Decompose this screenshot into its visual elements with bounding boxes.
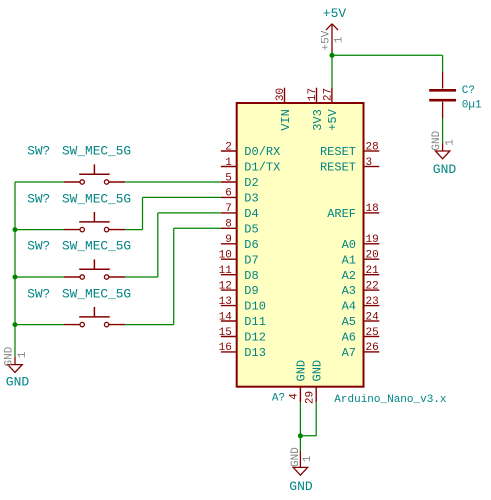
svg-text:A4: A4 [342, 300, 356, 314]
svg-text:GND: GND [289, 479, 313, 494]
pin 28 RESET [320, 141, 379, 159]
wire pin 4 to ground junction [299, 402, 301, 436]
svg-text:3V3: 3V3 [311, 109, 325, 131]
wire SW1 right to pin 5 [125, 181, 221, 183]
svg-text:GND: GND [290, 447, 302, 467]
ground (below Arduino) [293, 452, 307, 476]
svg-text:D5: D5 [244, 222, 258, 236]
svg-text:RESET: RESET [320, 145, 356, 159]
svg-text:6: 6 [225, 188, 232, 200]
svg-text:20: 20 [366, 250, 379, 262]
wire SW4 to pin 8 [174, 227, 221, 229]
pin 5 D2 [221, 172, 259, 190]
svg-text:9: 9 [225, 234, 232, 246]
svg-text:1: 1 [225, 157, 232, 169]
svg-text:GND: GND [295, 360, 309, 382]
IC A? Arduino_Nano_v3.x body [237, 103, 364, 387]
wire SW3 riser [157, 213, 159, 277]
svg-text:GND: GND [431, 130, 443, 150]
pin 4 GND (bottom) [289, 360, 309, 402]
svg-text:RESET: RESET [320, 161, 356, 175]
svg-text:SW?: SW? [27, 286, 50, 301]
svg-text:22: 22 [366, 280, 379, 292]
svg-text:D8: D8 [244, 269, 258, 283]
svg-text:18: 18 [366, 203, 379, 215]
svg-text:A7: A7 [342, 346, 356, 360]
pin 17 3V3 (top) [307, 88, 325, 131]
svg-text:D12: D12 [244, 331, 266, 345]
pin 12 D9 [219, 280, 259, 298]
switch SW2 SW_MEC_5G [27, 191, 131, 232]
svg-text:SW_MEC_5G: SW_MEC_5G [62, 286, 131, 301]
pin 2 D0/RX [221, 141, 280, 159]
pin 21 A2 [342, 265, 380, 283]
svg-text:D1/TX: D1/TX [244, 161, 280, 175]
svg-text:1: 1 [302, 455, 314, 462]
svg-text:26: 26 [366, 342, 379, 354]
svg-text:D10: D10 [244, 300, 266, 314]
svg-text:1: 1 [444, 139, 456, 146]
pin 19 A0 [342, 234, 380, 252]
svg-text:5: 5 [225, 172, 232, 184]
svg-text:8: 8 [225, 219, 232, 231]
svg-text:GND: GND [433, 162, 457, 177]
svg-text:7: 7 [225, 203, 232, 215]
pin 1 D1/TX [221, 157, 280, 175]
svg-text:A?: A? [272, 393, 285, 405]
svg-text:17: 17 [307, 88, 319, 101]
svg-text:A3: A3 [342, 284, 356, 298]
svg-text:D11: D11 [244, 315, 266, 329]
pin 20 A1 [342, 250, 380, 268]
pin 10 D7 [219, 250, 259, 268]
wire SW4 right horizontal [125, 324, 174, 326]
wire SW4 riser [173, 228, 175, 324]
svg-text:D6: D6 [244, 238, 258, 252]
pin 14 D11 [219, 311, 266, 329]
svg-text:+5V: +5V [323, 6, 347, 21]
svg-text:D3: D3 [244, 192, 258, 206]
svg-text:SW?: SW? [27, 144, 50, 159]
svg-text:28: 28 [366, 141, 379, 153]
wire junction to ground symbol [299, 436, 301, 452]
svg-text:SW_MEC_5G: SW_MEC_5G [62, 191, 131, 206]
svg-text:C?: C? [462, 85, 475, 97]
capacitor C? [429, 72, 456, 119]
svg-text:3: 3 [366, 157, 373, 169]
svg-text:A2: A2 [342, 269, 356, 283]
svg-text:29: 29 [304, 391, 316, 404]
svg-text:16: 16 [219, 342, 232, 354]
wire SW4 left to bus [15, 324, 64, 326]
svg-text:Arduino_Nano_v3.x: Arduino_Nano_v3.x [334, 394, 447, 406]
junction node bus SW4 [13, 322, 18, 327]
junction node +5V [330, 53, 335, 58]
svg-text:1: 1 [333, 36, 345, 43]
wire down to capacitor top pin [442, 55, 444, 72]
svg-text:30: 30 [275, 88, 287, 101]
svg-text:+5V: +5V [326, 108, 340, 130]
svg-text:14: 14 [219, 311, 233, 323]
wire SW3 left to bus [15, 276, 64, 278]
pin 23 A4 [342, 296, 380, 314]
svg-text:SW_MEC_5G: SW_MEC_5G [62, 239, 131, 254]
svg-text:0µ1: 0µ1 [462, 100, 482, 112]
svg-text:27: 27 [323, 88, 335, 101]
svg-text:AREF: AREF [327, 207, 356, 221]
junction node bus SW3 [13, 275, 18, 280]
svg-text:+5V: +5V [320, 30, 332, 50]
svg-text:A6: A6 [342, 331, 356, 345]
pin 25 A6 [342, 327, 380, 345]
pin 16 D13 [219, 342, 266, 360]
wire junction right to capacitor [332, 54, 443, 56]
pin 29 GND (bottom) [304, 360, 324, 404]
svg-text:19: 19 [366, 234, 379, 246]
junction node bus SW2 [13, 227, 18, 232]
svg-text:D7: D7 [244, 253, 258, 267]
pin 24 A5 [342, 311, 380, 329]
svg-text:2: 2 [225, 141, 232, 153]
svg-text:15: 15 [219, 327, 232, 339]
svg-text:A1: A1 [342, 253, 356, 267]
pin 27 +5V (top) [323, 88, 341, 131]
pin 26 A7 [342, 342, 380, 360]
wire bus vertical [14, 182, 16, 357]
svg-text:1: 1 [17, 351, 29, 358]
svg-text:D0/RX: D0/RX [244, 145, 280, 159]
svg-text:A0: A0 [342, 238, 356, 252]
wire SW2 left to bus [15, 229, 64, 231]
pin 7 D4 [221, 203, 259, 221]
pin 15 D12 [219, 327, 266, 345]
svg-text:D2: D2 [244, 176, 258, 190]
pin 8 D5 [221, 219, 259, 237]
wire junction down to pin 27 [331, 55, 333, 87]
power symbol +5V [326, 24, 338, 54]
pin 6 D3 [221, 188, 259, 206]
svg-text:GND: GND [3, 346, 15, 366]
pin 30 VIN (top) [275, 88, 293, 131]
svg-text:10: 10 [219, 250, 232, 262]
svg-text:D9: D9 [244, 284, 258, 298]
ground (capacitor) [435, 143, 449, 159]
switch SW3 SW_MEC_5G [27, 239, 131, 279]
wire SW2 riser [142, 197, 144, 229]
wire pin 29 down [315, 402, 317, 436]
svg-text:23: 23 [366, 296, 379, 308]
svg-text:VIN: VIN [279, 109, 293, 131]
pin 9 D6 [221, 234, 259, 252]
pin 22 A3 [342, 280, 380, 298]
pin 11 D8 [219, 265, 259, 283]
wire SW3 right horizontal [125, 276, 158, 278]
svg-text:11: 11 [219, 265, 233, 277]
svg-text:A5: A5 [342, 315, 356, 329]
junction node GND (bottom) [298, 433, 303, 438]
svg-text:D13: D13 [244, 346, 266, 360]
svg-text:4: 4 [289, 393, 301, 400]
svg-text:GND: GND [6, 375, 30, 390]
wire SW2 right horizontal [125, 229, 142, 231]
ground (switch bus) [8, 357, 22, 373]
wire capacitor bottom to ground [442, 119, 444, 144]
svg-text:13: 13 [219, 296, 232, 308]
svg-text:25: 25 [366, 327, 379, 339]
pin 18 AREF [327, 203, 379, 221]
wire SW1 left to bus [15, 181, 64, 183]
svg-text:24: 24 [366, 311, 380, 323]
switch SW4 SW_MEC_5G [27, 286, 131, 327]
svg-text:12: 12 [219, 280, 232, 292]
pin 3 RESET [320, 157, 379, 175]
svg-text:SW?: SW? [27, 191, 50, 206]
wire +5V stub to junction [331, 51, 333, 55]
svg-text:SW?: SW? [27, 239, 50, 254]
switch SW1 SW_MEC_5G [27, 144, 131, 185]
wire SW2 to pin 6 [143, 196, 221, 198]
svg-text:SW_MEC_5G: SW_MEC_5G [62, 144, 131, 159]
svg-text:GND: GND [311, 360, 325, 382]
svg-text:21: 21 [366, 265, 380, 277]
wire SW3 to pin 7 [158, 212, 221, 214]
svg-text:D4: D4 [244, 207, 258, 221]
wire pin 29 left to junction [300, 435, 316, 437]
pin 13 D10 [219, 296, 266, 314]
